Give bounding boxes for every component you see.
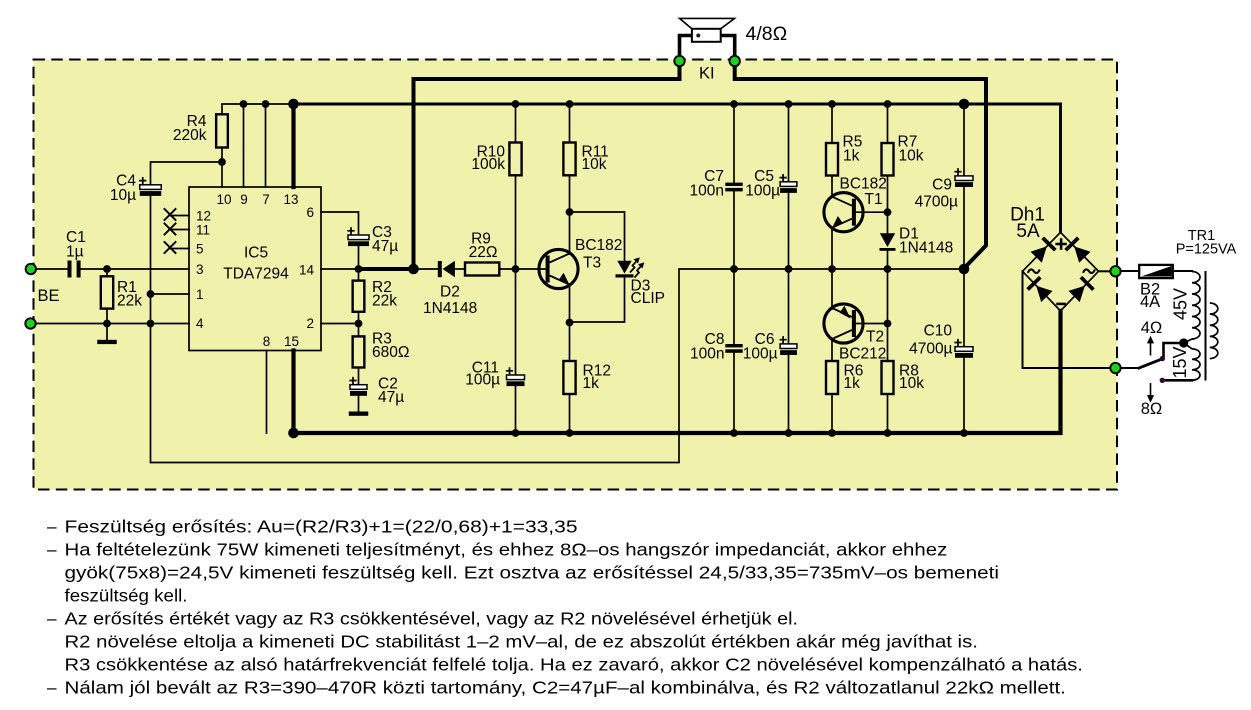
svg-text:4Ω: 4Ω [1141,319,1163,337]
transistor T1 BC182 [824,176,887,232]
svg-text:22k: 22k [372,293,397,310]
svg-text:6: 6 [306,205,314,220]
svg-text:100k: 100k [471,156,505,173]
junction R1/pin4 [103,320,111,328]
svg-text:13: 13 [283,192,298,207]
svg-text:3: 3 [196,262,204,277]
svg-text:1N4148: 1N4148 [899,240,953,257]
wire pin13 +V [291,104,295,187]
transformer TR1 primary winding [1176,228,1237,359]
wire speaker left lead [680,36,693,60]
resistor R10 100k [471,104,521,269]
wire pin6 to C3 [321,212,359,235]
svg-text:4A: 4A [1140,293,1160,311]
svg-text:P=125VA: P=125VA [1176,242,1237,258]
svg-text:100µ: 100µ [743,346,778,363]
wire pin7 [265,104,267,187]
node KI output terminal right [730,56,740,66]
svg-text:–: – [47,540,57,560]
transformer TR1 core [1205,271,1207,381]
wire output to D2 [414,268,439,270]
svg-text:4/8Ω: 4/8Ω [746,23,788,45]
node BE input terminal - [25,318,35,328]
svg-text:8Ω: 8Ω [1141,400,1163,418]
junction C9 top rail [959,99,970,110]
svg-text:Ha feltételezünk 75W kimeneti: Ha feltételezünk 75W kimeneti teljesítmé… [65,540,948,560]
wire T3 emitter down [569,285,571,323]
ground below C2 [349,396,369,416]
svg-text:TDA7294: TDA7294 [223,266,289,283]
switch lever 4/8 ohm select [1139,359,1162,368]
svg-text:8: 8 [263,334,271,349]
capacitor C4 10u [110,173,161,204]
fuse B2 4A [1139,265,1173,311]
diode D2 1N4148 [423,261,477,317]
wire speaker right lead [721,36,735,60]
resistor R11 10k [563,104,608,175]
svg-text:10k: 10k [582,156,607,173]
svg-text:15V: 15V [1170,346,1190,378]
svg-text:100n: 100n [690,346,724,363]
svg-text:12: 12 [196,209,211,224]
svg-text:1µ: 1µ [66,243,84,260]
capacitor C11 100u [465,269,524,433]
wire bridge AC right [1099,270,1111,272]
svg-text:IC5: IC5 [244,245,268,262]
junction T3 collector / D3 [566,208,574,216]
svg-text:1N4148: 1N4148 [423,300,477,317]
svg-text:10k: 10k [899,148,924,165]
svg-text:BC182: BC182 [575,237,622,254]
junction ground node at C9 [959,264,970,275]
switch contact 8ohm [1160,378,1165,383]
resistor R4 220k [173,113,228,148]
resistor R2 22k [353,269,398,324]
junction R10/C11 column [512,265,520,273]
svg-text:4: 4 [196,316,204,331]
svg-text:T2: T2 [866,329,884,346]
resistor R1 22k [101,269,142,324]
transistor T3 BC182 [539,237,623,289]
wire pin1 [151,293,190,295]
junction T3 emitter / D3 return [566,319,574,327]
capacitor C7 100n [690,104,743,269]
wire ground mid rail [151,192,965,463]
node KI output terminal left [674,56,684,66]
junction pin15 rail [288,428,299,439]
wire pin3 input row [35,268,189,270]
pin 11 n.c. [164,223,189,235]
svg-text:9: 9 [240,192,248,207]
capacitor C1 1u [66,229,86,278]
svg-text:22k: 22k [117,293,142,310]
transformer TR1 winding 15V [1170,346,1200,380]
svg-text:–: – [47,678,57,698]
svg-text:2: 2 [306,316,314,331]
junction gnd/pin4 [147,320,155,328]
junction T2 base / R8 [884,320,892,328]
svg-text:1k: 1k [844,375,861,392]
arrow down 8ohm [1141,383,1163,418]
wire -V bottom rail [294,311,1061,433]
wire output pin14 to speaker KI [359,267,414,271]
svg-text:R2 növelése eltolja a kimeneti: R2 növelése eltolja a kimeneti DC stabil… [65,632,978,652]
svg-text:Nálam jól bevált az R3=390–470: Nálam jól bevált az R3=390–470R közti ta… [65,678,1066,698]
svg-text:C9: C9 [932,177,952,194]
wire D3 branch [570,212,625,261]
diode D1 1N4148 [880,226,954,270]
wire T2 base to R8 column [856,323,888,325]
wire D3 return [570,277,625,322]
svg-text:45V: 45V [1171,288,1191,320]
wire R5 to T1 collector [831,176,833,197]
wire pin8 to -V rail [266,351,268,434]
svg-text:47µ: 47µ [372,238,398,255]
wire terminal to fuse [1121,270,1141,272]
svg-text:22Ω: 22Ω [469,244,498,261]
capacitor C5 100u [745,104,797,269]
wire T1 emitter to gnd rail [831,228,833,269]
node mains terminal upper [1110,266,1120,276]
node mains terminal lower [1110,363,1120,373]
wire R9 to T3 base [499,268,547,270]
svg-text:100µ: 100µ [465,372,500,389]
svg-text:C10: C10 [924,323,953,340]
resistor R9 22R [465,231,499,276]
svg-text:Feszültség erősítés: Au=(R2/R3: Feszültség erősítés: Au=(R2/R3)+1=(22/0,… [65,517,578,537]
wire pin9 [243,104,245,187]
junction T1 base / D1 [884,208,892,216]
svg-text:Az erősítés értékét vagy az R3: Az erősítés értékét vagy az R3 csökkenté… [65,609,799,629]
svg-text:15: 15 [284,334,299,349]
resistor R5 1k [826,104,862,176]
svg-text:10k: 10k [899,375,924,392]
junction R2/R3/pin2 [355,320,363,328]
svg-text:–: – [47,517,57,537]
wire +V top rail [222,104,294,114]
op-amp IC5 TDA7294 [189,187,321,351]
notes text [47,517,1083,698]
wire pin4 input row [35,323,189,325]
capacitor C2 47u [349,376,404,407]
svg-text:220k: 220k [173,127,207,144]
svg-text:5: 5 [196,242,204,257]
node BE input terminal + [26,264,36,274]
wire C3 to pin14 node [358,246,360,269]
svg-text:1k: 1k [843,148,860,165]
arrow up 4ohm [1141,319,1163,356]
svg-text:KI: KI [699,65,715,83]
svg-text:feszültség kell.: feszültség kell. [65,586,188,606]
wire R11 to T3 collector [569,175,571,254]
capacitor C10 4700u [909,269,973,433]
svg-text:–: – [47,609,57,629]
svg-text:5A: 5A [1016,221,1040,242]
svg-text:47µ: 47µ [378,389,404,406]
wire speaker return to ground [735,61,986,268]
resistor R6 1k [826,339,863,433]
svg-text:1k: 1k [583,375,600,392]
svg-text:10µ: 10µ [110,187,136,204]
resistor R12 1k [563,323,611,434]
svg-text:BC212: BC212 [839,346,886,363]
junction gnd/pin1 [147,290,155,298]
svg-text:gyök(75x8)=24,5V kimeneti fesz: gyök(75x8)=24,5V kimeneti feszültség kel… [65,563,999,583]
capacitor C8 100n [690,269,743,433]
junction C1/R1 [103,265,111,273]
transformer TR1 winding 45V [1171,272,1201,340]
bridge rectifier Dh1 5A [1010,205,1098,311]
svg-text:BC182: BC182 [840,176,887,193]
svg-text:14: 14 [299,263,315,278]
svg-text:T1: T1 [865,191,883,208]
resistor R3 680R [353,324,410,385]
wire D2 to R9 [455,268,465,270]
switch contact 4ohm [1160,356,1165,361]
pin 12 n.c. [164,208,189,220]
svg-text:T3: T3 [583,255,601,272]
wire fuse to transformer [1173,270,1192,272]
svg-text:10: 10 [216,192,231,207]
svg-text:100n: 100n [690,183,724,200]
wire bridge AC left [1023,271,1111,368]
capacitor C6 100u [743,269,797,433]
resistor R7 10k [882,104,924,233]
wire 45V tap [1184,339,1192,349]
wire T1 base to R7 column [856,211,888,213]
transistor T2 BC212 [824,269,887,363]
svg-text:4700µ: 4700µ [909,341,952,358]
board background [34,60,1118,490]
svg-text:4700µ: 4700µ [915,194,958,211]
svg-text:11: 11 [196,223,210,238]
wire pin2 [321,323,359,325]
LED D3 CLIP [616,257,665,307]
resistor R8 10k [882,324,925,434]
junction output node [408,264,419,275]
ground below R1 [97,324,117,345]
junction R12 rail [566,429,574,437]
svg-text:BE: BE [38,287,60,305]
wire pin14 [321,268,359,270]
svg-text:680Ω: 680Ω [372,344,409,361]
pin 5 n.c. [164,241,189,253]
svg-text:R3 csökkentése az alsó határfr: R3 csökkentése az alsó határfrekvenciát … [65,655,1083,675]
svg-text:1: 1 [196,287,204,302]
capacitor C9 4700u [915,104,973,269]
wire terminal to switch pivot [1121,367,1140,369]
svg-text:D2: D2 [440,284,460,301]
junction C11 rail [512,429,520,437]
junction C3/R2/pin14 [355,265,363,273]
wire 15V bottom to 8ohm contact [1164,379,1193,382]
svg-text:100µ: 100µ [745,183,780,200]
wire D1 column to T2 base row [887,269,889,324]
svg-text:7: 7 [262,192,270,207]
junction R4/C4/pin10 [218,158,226,166]
junction transformer tap [1179,338,1188,347]
wire R4 to pin10 and C4 junction [221,148,223,188]
speaker LS1 4/8ohm [680,18,788,45]
wire pin15 to -V rail [291,351,295,434]
capacitor C3 47u [347,224,398,255]
svg-text:CLIP: CLIP [631,290,665,307]
